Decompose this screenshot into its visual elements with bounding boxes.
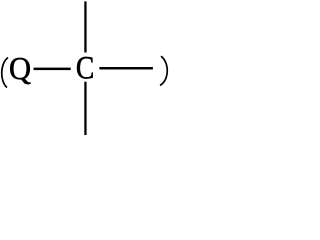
atom label Q: [10, 58, 30, 84]
right parenthesis: [160, 56, 167, 85]
bond above C vertical wire: [84, 1, 86, 52]
bond C-right horizontal wire: [99, 67, 152, 70]
left parenthesis: [2, 58, 8, 88]
bond Q-C horizontal wire: [34, 68, 71, 71]
atom label C: [77, 57, 93, 79]
bond below C vertical wire: [84, 82, 86, 135]
